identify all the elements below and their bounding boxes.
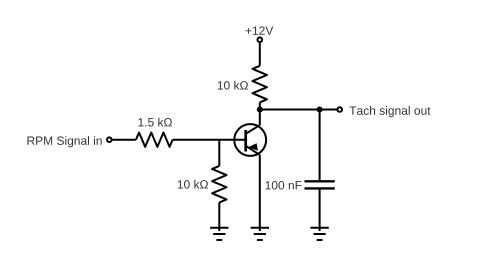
wire capacitor node to C1 bbox=[319, 110, 321, 181]
wire C1 to ground bbox=[319, 189, 321, 231]
resistor R1 10 kOhm pull-up bbox=[253, 66, 267, 103]
wire input terminal to R2 bbox=[112, 139, 136, 141]
wire collector node to output terminal bbox=[260, 109, 337, 111]
wire emitter to ground bbox=[259, 155, 261, 231]
terminal +12V bbox=[258, 37, 263, 42]
label +12V bbox=[246, 26, 274, 34]
node capacitor junction bbox=[317, 107, 323, 113]
node collector junction bbox=[257, 107, 263, 113]
wire base node to R3 bbox=[218, 140, 220, 166]
wire R1 to collector node bbox=[259, 102, 261, 109]
label 1.5 kOhm bbox=[138, 118, 172, 127]
resistor R2 1.5 kOhm base series bbox=[136, 133, 173, 147]
ground under capacitor bbox=[310, 228, 328, 240]
wire +12V to R1 bbox=[259, 42, 261, 66]
terminal Tach signal out bbox=[337, 107, 342, 112]
capacitor C1 100 nF bbox=[305, 181, 335, 188]
wire R3 to ground bbox=[218, 203, 220, 232]
wire node to collector bbox=[259, 110, 261, 126]
terminal RPM Signal in bbox=[107, 137, 112, 142]
transistor Q1 NPN bbox=[234, 124, 266, 156]
ground under R3 bbox=[210, 228, 228, 240]
wire R2 to base bbox=[173, 139, 245, 141]
label Tach signal out bbox=[349, 106, 430, 117]
label 10 kOhm pull-up resistor bbox=[218, 81, 248, 90]
ground under emitter bbox=[251, 228, 269, 240]
label 100 nF bbox=[266, 181, 302, 190]
label 10 kOhm base resistor bbox=[178, 180, 208, 189]
label RPM Signal in bbox=[27, 136, 101, 147]
resistor R3 10 kOhm base-emitter bbox=[212, 166, 226, 203]
